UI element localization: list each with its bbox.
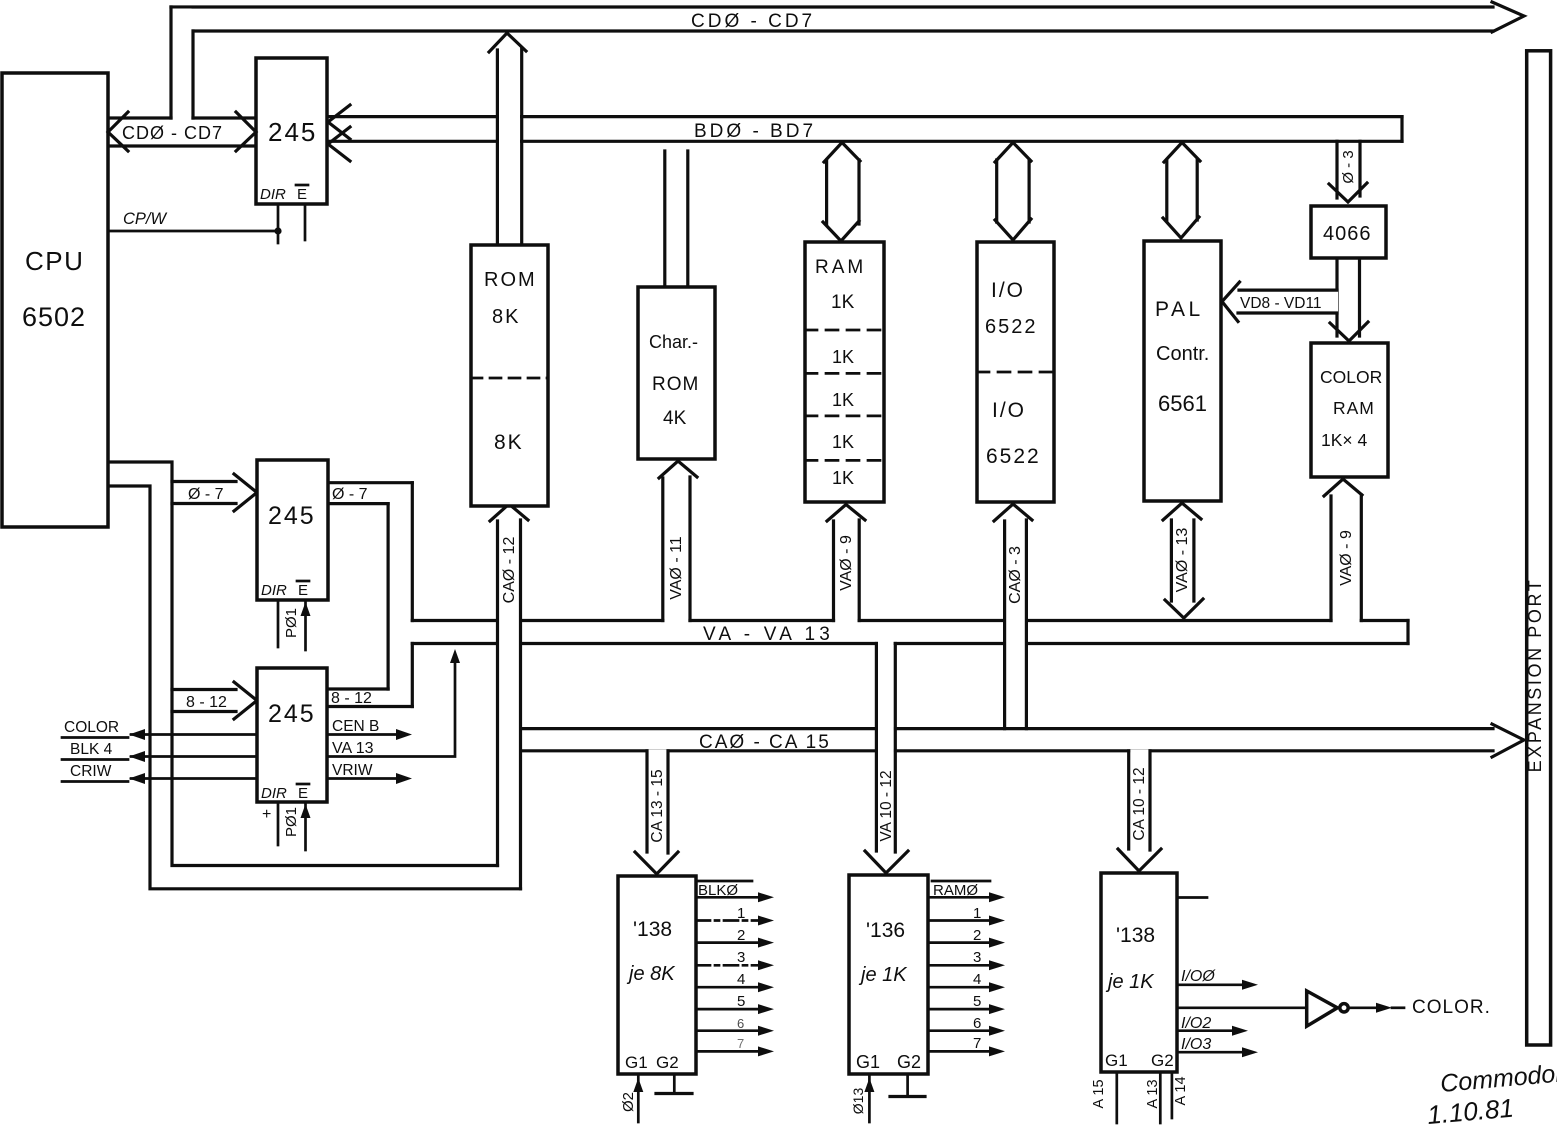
- node CA13-15 label: [649, 769, 666, 842]
- svg-text:8K: 8K: [494, 431, 524, 454]
- svg-text:VA 10 - 12: VA 10 - 12: [878, 770, 895, 841]
- svg-text:CAØ - 12: CAØ - 12: [501, 537, 518, 604]
- svg-text:'136: '136: [866, 919, 905, 942]
- wire 8-12 output of 245 U3 to VA bus: [327, 644, 412, 708]
- svg-text:I/OØ: I/OØ: [1181, 968, 1216, 985]
- wire 138 I/O decoder A14 pin: [1172, 1072, 1189, 1118]
- wire CPU address exit upper: [108, 462, 498, 866]
- svg-text:4K: 4K: [663, 408, 687, 429]
- node BD0-BD7 label: [694, 121, 816, 142]
- svg-text:CAØ - CA 15: CAØ - CA 15: [699, 732, 831, 753]
- svg-text:G2: G2: [656, 1053, 679, 1072]
- 138 decoder je 8K: [618, 876, 696, 1074]
- svg-text:1K: 1K: [832, 432, 854, 452]
- ground 136 G2: [890, 1074, 925, 1097]
- svg-text:Contr.: Contr.: [1156, 343, 1209, 365]
- svg-text:E: E: [298, 582, 308, 599]
- wire PAL data bidirectional arrow: [1163, 143, 1200, 239]
- wire CD bus arrow into expansion port: [1492, 2, 1524, 32]
- svg-text:VA - VA 13: VA - VA 13: [703, 624, 834, 645]
- svg-text:RAMØ: RAMØ: [933, 882, 978, 899]
- wire VA 13 output: [327, 649, 460, 757]
- node RAM 1-7 labels: [973, 905, 981, 1052]
- svg-text:BDØ - BD7: BDØ - BD7: [694, 121, 816, 142]
- svg-text:PØ1: PØ1: [283, 608, 300, 638]
- svg-text:RAM: RAM: [1333, 398, 1375, 418]
- svg-text:VAØ - 11: VAØ - 11: [668, 536, 685, 600]
- svg-text:VD8 - VD11: VD8 - VD11: [1240, 295, 1322, 312]
- svg-text:2: 2: [737, 927, 745, 944]
- svg-text:EXPANSION PORT: EXPANSION PORT: [1525, 578, 1545, 773]
- svg-text:je 1K: je 1K: [1105, 971, 1155, 993]
- svg-text:Ø - 3: Ø - 3: [1340, 150, 1357, 183]
- wire CP/W: [108, 210, 282, 235]
- wire VA0-11 column CharROM address: [659, 461, 697, 621]
- svg-text:BLK 4: BLK 4: [70, 741, 113, 758]
- wire phi-3 column BD to 4066: [1329, 141, 1367, 202]
- svg-text:+: +: [262, 806, 271, 823]
- wire 138 G1 pin phi2: [620, 1074, 643, 1122]
- node Commodore signature: [1426, 1058, 1557, 1130]
- wire VRIW output: [327, 762, 412, 784]
- svg-text:COLOR: COLOR: [1320, 367, 1382, 387]
- svg-text:7: 7: [973, 1035, 981, 1052]
- svg-text:1K: 1K: [832, 468, 854, 488]
- svg-text:Ø13: Ø13: [850, 1088, 866, 1115]
- wire CharROM data column from BD bus: [665, 151, 688, 287]
- svg-text:1: 1: [973, 905, 981, 922]
- svg-text:I/O: I/O: [992, 399, 1026, 422]
- node VA-VA13 label: [703, 624, 834, 645]
- svg-text:6: 6: [737, 1016, 744, 1031]
- svg-text:G1: G1: [625, 1053, 648, 1072]
- node CA0-12 label: [501, 537, 518, 604]
- svg-text:1K: 1K: [832, 390, 854, 410]
- wire RAM data bidirectional arrow: [823, 143, 860, 242]
- svg-text:245: 245: [268, 502, 316, 530]
- wire I/O3 output: [1177, 1036, 1258, 1057]
- svg-text:6522: 6522: [986, 445, 1041, 468]
- wire I/O data bidirectional arrow: [995, 143, 1031, 241]
- svg-text:8 - 12: 8 - 12: [331, 690, 372, 707]
- svg-text:6: 6: [973, 1015, 981, 1032]
- wire 138 I/O decoder A13 pin: [1145, 1072, 1161, 1123]
- 138 decoder I/O je 1K: [1101, 873, 1177, 1072]
- svg-text:5: 5: [737, 993, 745, 1010]
- node BLK 1-7 labels: [737, 905, 745, 1051]
- svg-text:1K: 1K: [831, 292, 855, 313]
- wire CEN B output: [327, 718, 412, 740]
- node VA10-12 label: [878, 770, 895, 841]
- svg-text:5: 5: [973, 993, 981, 1010]
- node CA0-3 label: [1007, 546, 1024, 604]
- wire 136 decoder RAM outputs: [928, 892, 1005, 1056]
- node VA0-9 CRAM label: [1338, 530, 1355, 586]
- bus CA0-CA15: [521, 729, 1494, 751]
- svg-text:G1: G1: [1105, 1051, 1128, 1070]
- wire CPU address exit lower: [108, 486, 521, 889]
- wire 245 U1 DIR pin: [277, 204, 280, 243]
- wire VA0-9 column RAM address: [827, 505, 865, 621]
- svg-text:je 1K: je 1K: [858, 964, 908, 986]
- node BLK4 input: [62, 741, 257, 762]
- svg-text:2: 2: [973, 927, 981, 944]
- svg-text:CDØ - CD7: CDØ - CD7: [691, 11, 815, 32]
- expansion port: [1525, 51, 1551, 1045]
- 245 U2 address latch: [257, 460, 328, 600]
- svg-text:G2: G2: [1151, 1051, 1174, 1070]
- bus CD0-CD7 CPU link: [108, 118, 256, 146]
- svg-text:CEN B: CEN B: [332, 718, 379, 735]
- svg-text:I/O3: I/O3: [1181, 1036, 1211, 1053]
- node VD8-VD11 label: [1240, 295, 1322, 312]
- wire I/O1 to inverter: [1177, 1006, 1306, 1009]
- bus BD0-BD7: [330, 117, 1402, 142]
- wire CA13-15 column to 138 decoder: [635, 749, 678, 874]
- svg-text:Ø - 7: Ø - 7: [332, 486, 368, 503]
- wire 8-12 arrow into 245 U3: [172, 682, 257, 719]
- node VA0-9 RAM label: [838, 535, 855, 591]
- svg-text:E: E: [298, 785, 308, 802]
- 245 U3 address latch: [257, 668, 327, 802]
- bus VA-VA13: [412, 621, 1408, 644]
- node CA0-CA15 label: [699, 732, 831, 753]
- svg-text:RAM: RAM: [815, 257, 866, 278]
- wire VA0-9 column COLOR RAM address: [1324, 479, 1362, 621]
- svg-text:8 - 12: 8 - 12: [186, 694, 227, 711]
- CPU 6502: [2, 73, 108, 527]
- node CD0-CD7 CPU label: [122, 123, 223, 143]
- wire CA0-12 column ROM address: [490, 504, 528, 889]
- svg-text:A 14: A 14: [1173, 1076, 1189, 1105]
- svg-text:1K× 4: 1K× 4: [1321, 430, 1367, 450]
- wire 136 G1 pin phi13: [850, 1074, 874, 1122]
- svg-text:je 8K: je 8K: [626, 963, 676, 985]
- 245 U1 data transceiver: [256, 58, 327, 204]
- 136 decoder je 1K: [849, 875, 928, 1074]
- RAM 5x1K: [805, 242, 884, 502]
- svg-text:1: 1: [737, 905, 745, 922]
- svg-text:DIR: DIR: [260, 186, 286, 203]
- node CRIW input: [62, 763, 257, 784]
- wire 245 U2 P01 pins: [278, 600, 311, 650]
- CharROM 4K: [638, 287, 715, 459]
- node COLOR input: [62, 719, 257, 740]
- svg-text:ROM: ROM: [652, 374, 699, 395]
- COLOR RAM 1Kx4: [1311, 343, 1388, 477]
- svg-text:VRIW: VRIW: [332, 762, 373, 779]
- svg-text:CA 10 - 12: CA 10 - 12: [1131, 767, 1148, 840]
- svg-text:COLOR.: COLOR.: [1412, 997, 1491, 1018]
- svg-text:CA 13 - 15: CA 13 - 15: [649, 769, 666, 842]
- inverter gate: [1307, 991, 1349, 1026]
- svg-text:Char.-: Char.-: [649, 332, 698, 352]
- svg-text:DIR: DIR: [261, 785, 287, 802]
- svg-text:E: E: [297, 186, 307, 203]
- svg-text:CP/W: CP/W: [123, 210, 168, 228]
- wire CA0-3 column I/O address: [994, 504, 1032, 729]
- svg-text:'138: '138: [633, 918, 672, 941]
- node VA0-13 label: [1174, 528, 1191, 593]
- wire 245 U3 P01 pins: [262, 802, 311, 850]
- wire CA10-12 column to 138 decoder: [1118, 749, 1161, 871]
- wire 138 decoder BLK outputs: [696, 892, 774, 1056]
- wire VA0-13 column PAL bidirectional: [1163, 503, 1203, 618]
- svg-text:6522: 6522: [985, 316, 1038, 338]
- svg-text:3: 3: [973, 949, 981, 966]
- svg-text:PØ1: PØ1: [283, 807, 300, 837]
- svg-text:6561: 6561: [1158, 391, 1207, 416]
- svg-text:A 13: A 13: [1145, 1079, 1161, 1108]
- wire phi0-7 arrow into 245 U2: [172, 474, 257, 511]
- svg-text:CDØ - CD7: CDØ - CD7: [122, 123, 223, 143]
- wire inverter output COLOR: [1349, 997, 1491, 1018]
- svg-text:I/O2: I/O2: [1181, 1015, 1211, 1032]
- svg-text:PAL: PAL: [1155, 298, 1204, 321]
- svg-text:BLKØ: BLKØ: [698, 882, 738, 899]
- svg-text:CPU: CPU: [25, 246, 84, 276]
- wire 138 I/O decoder stub output: [1177, 896, 1207, 899]
- svg-text:VAØ - 9: VAØ - 9: [838, 535, 855, 591]
- svg-text:ROM: ROM: [484, 269, 537, 291]
- 4066 switch: [1311, 206, 1386, 258]
- wire 4066 to COLOR RAM column: [1330, 258, 1368, 341]
- wire VA10-12 column to 136 decoder: [865, 644, 908, 874]
- svg-text:VAØ - 13: VAØ - 13: [1174, 528, 1191, 593]
- wire CA bus arrow into expansion port: [1492, 724, 1524, 757]
- node CD0-CD7 top label: [691, 11, 815, 32]
- svg-text:VA 13: VA 13: [332, 740, 374, 757]
- svg-text:G1: G1: [856, 1052, 880, 1072]
- svg-text:Ø2: Ø2: [620, 1092, 637, 1112]
- node phi-3 label: [1340, 150, 1357, 183]
- node RAM0 label: [932, 881, 990, 899]
- svg-text:7: 7: [737, 1036, 744, 1051]
- wire phi0-7 output of 245 U2 to VA bus: [328, 483, 412, 689]
- svg-text:'138: '138: [1116, 924, 1155, 947]
- node BLK0 label: [697, 881, 752, 899]
- wire ROM data column to CD bus: [489, 33, 526, 245]
- wire 245 U1 E pin: [304, 204, 307, 240]
- svg-text:I/O: I/O: [991, 279, 1025, 302]
- wire CD bus riser: [171, 7, 193, 118]
- svg-text:245: 245: [268, 117, 317, 147]
- svg-text:3: 3: [737, 949, 745, 966]
- bus CD0-CD7 top: [171, 7, 1493, 31]
- wire 138 I/O decoder A15 pin: [1091, 1072, 1117, 1123]
- svg-text:CAØ - 3: CAØ - 3: [1007, 546, 1024, 604]
- svg-text:DIR: DIR: [261, 582, 287, 599]
- svg-text:COLOR: COLOR: [64, 719, 119, 736]
- svg-text:6502: 6502: [22, 302, 86, 332]
- svg-text:4: 4: [737, 971, 745, 988]
- svg-text:Ø - 7: Ø - 7: [188, 486, 224, 503]
- wire CD0-CD7 arrowheads CPU and 245: [108, 112, 256, 151]
- wire VD8-VD11 arrow to PAL: [1222, 282, 1338, 322]
- I/O 6522 x2: [977, 242, 1054, 502]
- svg-text:8K: 8K: [492, 306, 520, 328]
- node VA0-11 label: [668, 536, 685, 600]
- svg-text:245: 245: [268, 700, 316, 728]
- svg-text:4066: 4066: [1323, 223, 1372, 245]
- svg-text:CRIW: CRIW: [70, 763, 112, 780]
- wire I/O0 output: [1177, 968, 1258, 990]
- svg-text:4: 4: [973, 971, 981, 988]
- PAL controller 6561: [1144, 241, 1221, 501]
- ROM 8K/8K: [471, 245, 548, 506]
- wire I/O2 output: [1177, 1015, 1248, 1036]
- node CA10-12 label: [1131, 767, 1148, 840]
- svg-text:1K: 1K: [832, 347, 854, 367]
- svg-text:VAØ - 9: VAØ - 9: [1338, 530, 1355, 586]
- svg-text:A 15: A 15: [1091, 1079, 1107, 1108]
- svg-text:G2: G2: [897, 1052, 921, 1072]
- ground 138 G3: [656, 1074, 692, 1094]
- wire BD bus arrowheads into 245 U1: [328, 105, 350, 161]
